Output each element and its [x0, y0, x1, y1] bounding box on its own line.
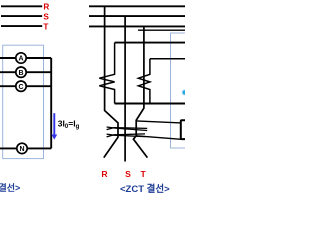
svg-text:결선>: 결선> — [0, 182, 20, 193]
svg-text:T: T — [43, 23, 48, 32]
svg-text:S: S — [125, 169, 131, 179]
svg-text:T: T — [141, 169, 147, 179]
svg-text:S: S — [43, 13, 49, 22]
svg-text:R: R — [101, 169, 108, 179]
svg-text:B: B — [18, 70, 23, 77]
svg-text:R: R — [43, 3, 49, 12]
svg-text:<ZCT 결선>: <ZCT 결선> — [120, 183, 170, 195]
svg-text:3I0=Ig: 3I0=Ig — [58, 119, 80, 131]
svg-text:N: N — [19, 146, 24, 153]
svg-text:A: A — [18, 56, 23, 63]
svg-text:C: C — [18, 84, 23, 91]
